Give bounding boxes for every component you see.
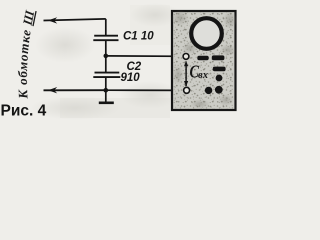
wire: bottom lead to winding III (44, 89, 106, 91)
svg-text:910: 910 (121, 72, 141, 84)
svg-text:С2: С2 (127, 61, 142, 73)
wire: C2 bottom to ground (105, 77, 107, 102)
wire: top lead to winding III (44, 19, 106, 21)
pin dot 1 (216, 75, 223, 82)
pin bar 1 (197, 56, 208, 60)
svg-text:С1 10: С1 10 (123, 31, 154, 43)
lower input terminal (184, 87, 190, 93)
Cvx double arrow (184, 61, 188, 87)
ground (chassis bar) (99, 102, 114, 105)
wire: vertical from top corner to C1 (105, 19, 107, 36)
wire: node B to socket lower terminal (106, 89, 184, 91)
pin dot 2 (215, 86, 223, 94)
svg-text:вх: вх (198, 70, 208, 81)
svg-text:Рис. 4: Рис. 4 (1, 103, 47, 120)
pin dot 3 (205, 87, 212, 94)
pin bar 3 (213, 67, 226, 72)
wire: node A to socket upper terminal (106, 55, 183, 57)
tube socket panel (172, 11, 236, 110)
wire: C1 bottom to node A (105, 40, 107, 56)
capacitor C1 (93, 36, 118, 41)
node B junction on bottom wire (104, 88, 109, 93)
wire: node A to C2 (105, 56, 107, 73)
upper input terminal (183, 54, 189, 60)
paper background (0, 0, 240, 120)
capacitor C2 (93, 73, 120, 78)
tube envelope (big circle) (191, 18, 222, 49)
arrow to winding III (bottom) (48, 87, 57, 93)
node A junction (104, 54, 109, 59)
arrow to winding III (top) (48, 17, 57, 23)
pin bar 2 (212, 55, 225, 60)
